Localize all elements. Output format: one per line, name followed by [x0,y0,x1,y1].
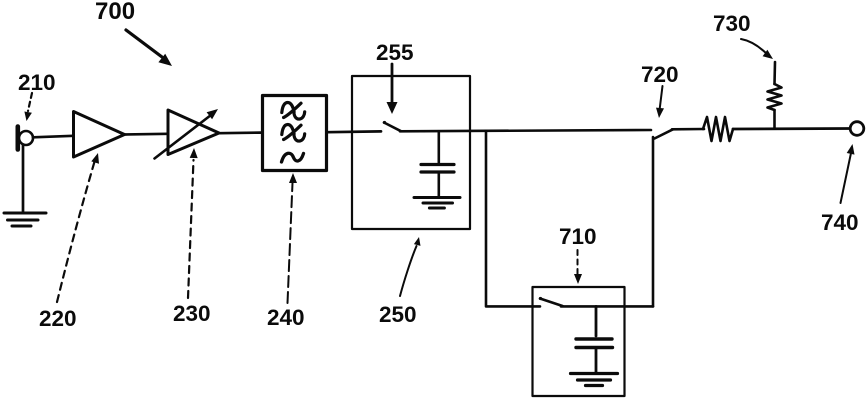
wire amp to variable amp [125,132,169,135]
variable amplifier 230 [155,109,220,159]
resistor (series) [703,117,733,141]
lead arrow for 240 [288,173,298,303]
capacitor in box 710 [576,306,613,372]
input transducer 210 [18,127,33,150]
wire filter to switch 255 [327,130,381,134]
filter 240 [263,96,327,171]
box 250 [352,76,470,229]
wire transducer to amp [33,136,74,138]
wire switch 720 to resistor [672,128,704,131]
lead arrow for 740 [841,144,855,203]
svg-text:255: 255 [376,40,414,65]
svg-text:210: 210 [18,70,56,95]
lead arrow for 220 [57,153,99,302]
lead arrow for 210 [24,93,32,121]
ground (box 250) [414,198,460,209]
svg-text:730: 730 [713,11,751,36]
svg-text:240: 240 [267,305,305,330]
main wire switch 255 to switch 720 [400,130,651,131]
wire right branch up to switch 720 [652,137,655,306]
wire variable amp to filter [219,131,262,134]
wire branch down-left to box 710 [486,132,540,307]
capacitor in box 250 [421,132,454,197]
svg-text:710: 710 [559,224,597,249]
amplifier 220 [74,112,125,158]
switch in box 710 [539,297,563,306]
lead arrow for 700 [126,30,172,66]
wire switch to right branch [561,305,653,308]
svg-text:700: 700 [95,0,135,25]
lead arrow for 730 [741,39,773,59]
svg-text:230: 230 [173,301,211,326]
box 710 [533,287,625,396]
svg-text:720: 720 [641,62,679,87]
lead arrow for 720 [656,86,664,118]
wire transducer to ground [22,145,25,212]
switch 720 [655,129,674,138]
svg-text:250: 250 [379,302,417,327]
lead arrow for 255 [387,64,398,114]
svg-text:220: 220 [39,306,77,331]
lead arrow for 230 [188,148,198,298]
svg-text:740: 740 [821,210,859,235]
ground (input) [4,213,46,226]
output terminal 740 [850,122,864,136]
lead arrow for 710 [574,250,582,284]
wire resistor to output [733,127,851,130]
resistor 730 (shunt, vertical) [768,62,782,129]
lead arrow for 250 [400,237,421,296]
switch 255 [383,121,401,131]
ground (box 710) [571,374,618,386]
